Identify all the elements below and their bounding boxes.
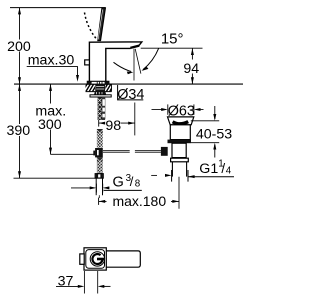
waste pipe [172, 162, 186, 177]
wire top extension line (tap top level) [10, 7, 105, 9]
svg-text:G1: G1 [199, 161, 218, 177]
15 deg arc right piece [141, 48, 158, 71]
label G3/8 [104, 173, 142, 190]
top view: inner rounded square [86, 250, 105, 269]
pop-up rod knob at waste [161, 147, 168, 156]
supply connection nut G3/8 [95, 174, 103, 178]
svg-text:37: 37 [58, 273, 74, 289]
dimension 94 [183, 48, 200, 84]
label max.30 with leader [27, 52, 79, 82]
top view: spout tab left [80, 254, 84, 264]
label 200 [5, 39, 31, 55]
svg-text:8: 8 [135, 179, 141, 190]
top view: circle with G logo [90, 252, 104, 266]
svg-text:G: G [113, 174, 124, 190]
pop-up waste flange [168, 117, 194, 125]
mounting nut under countertop [94, 92, 106, 95]
svg-text:/: / [221, 161, 225, 176]
label G1 1/4 [188, 159, 234, 177]
svg-text:94: 94 [183, 61, 199, 77]
flexible hose braid upper [97, 129, 103, 148]
wire 94 top extension [141, 47, 203, 49]
dimension G3/8 arrows [71, 184, 110, 193]
water stream lines [134, 49, 141, 81]
threaded shank / hose top [98, 97, 106, 120]
svg-text:4: 4 [226, 165, 232, 176]
faucet base plate [87, 81, 109, 84]
hose connector to pop-up rod [93, 148, 102, 157]
waste mounting flange (dark) [168, 140, 192, 144]
svg-text:390: 390 [6, 123, 30, 139]
dimension 200/390 vertical line [18, 8, 21, 178]
dimension G1 1/4 arrows [151, 170, 194, 182]
dimension 40-53 [191, 106, 232, 158]
waste neck [172, 143, 186, 157]
svg-text:max.180: max.180 [112, 193, 166, 209]
svg-text:max.30: max.30 [28, 52, 75, 68]
countertop line [14, 83, 243, 85]
top view: lever handle [105, 251, 140, 267]
top view: outer square [84, 248, 106, 270]
faucet body outline [89, 42, 141, 82]
svg-text:98: 98 [105, 118, 121, 134]
waste collar [171, 158, 189, 162]
label diameter 34 [117, 85, 144, 103]
dimension max.300 [35, 84, 94, 154]
15 deg arc left piece [114, 62, 134, 74]
dimension 98 [99, 103, 135, 136]
pop-up waste body [170, 125, 190, 140]
washer under countertop [90, 95, 111, 97]
dimension diameter 63 [152, 104, 204, 120]
label 15 deg [161, 31, 184, 48]
lever handle (side view) [98, 8, 106, 41]
svg-text:/: / [130, 174, 134, 189]
aerator (15 deg tilted) [130, 46, 139, 48]
svg-text:Ø34: Ø34 [117, 87, 144, 103]
mounting shank in countertop hole [95, 84, 105, 92]
wire 390 bottom extension line [14, 177, 96, 179]
lever swivel dashed arc [85, 13, 97, 40]
supply tube [96, 178, 102, 198]
dimension 37 [56, 271, 111, 294]
drain pipe centerline extension [178, 177, 180, 209]
dimension max.180 [99, 193, 179, 209]
label 390 [6, 123, 30, 139]
pop-up rod (horizontal) [103, 150, 161, 152]
back knob on body [85, 60, 90, 65]
countertop cross-section hatch [82, 83, 115, 93]
svg-text:300: 300 [38, 117, 62, 133]
flexible hose braid lower [97, 158, 103, 174]
svg-text:40-53: 40-53 [196, 127, 232, 143]
svg-text:15°: 15° [161, 31, 184, 48]
